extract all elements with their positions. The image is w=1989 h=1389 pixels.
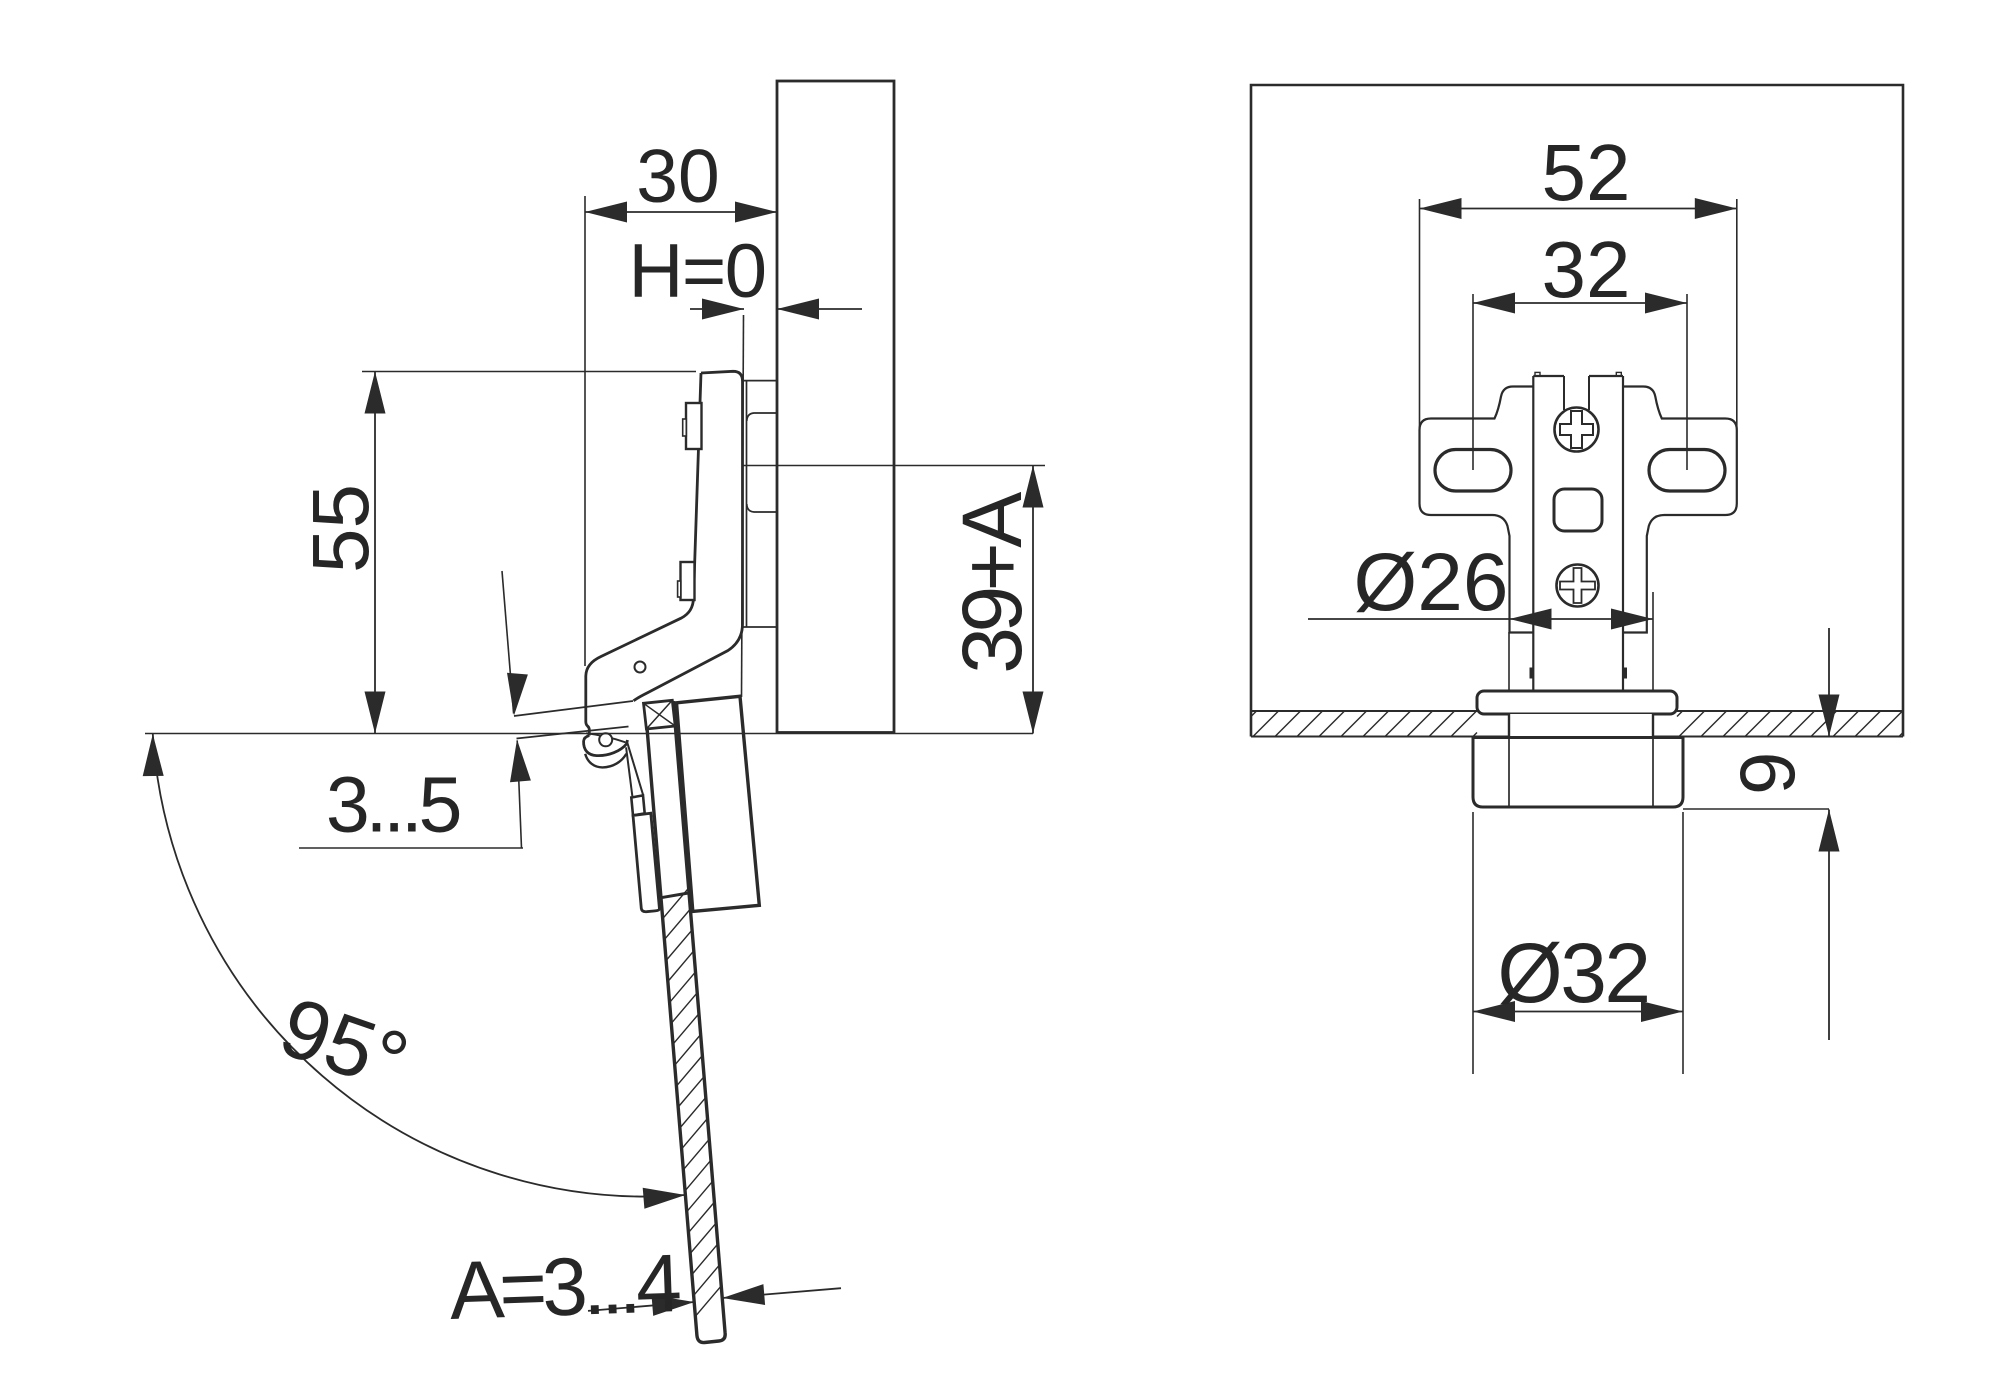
cabinet bottom reference line xyxy=(145,733,1033,735)
dimension 95 degree arc xyxy=(143,734,686,1209)
svg-text:52: 52 xyxy=(1542,128,1631,217)
cup clip xyxy=(631,795,659,911)
cup neck xyxy=(1509,714,1653,738)
dimension diameter 32 xyxy=(1473,812,1683,1074)
dimension 6 xyxy=(1683,628,1840,1040)
plate screw lower xyxy=(1557,565,1599,607)
cup body xyxy=(1473,738,1683,808)
dimension 52 xyxy=(1420,128,1737,430)
svg-text:6: 6 xyxy=(1724,751,1812,794)
hinge cup boss xyxy=(677,696,760,911)
dimension 32 xyxy=(1473,225,1687,470)
cup rim section (X box) xyxy=(644,700,676,729)
svg-text:H=0: H=0 xyxy=(628,229,765,314)
cup flange xyxy=(1477,691,1677,714)
cabinet panel face (right view) xyxy=(1251,85,1903,737)
hinge knuckle xyxy=(584,733,628,767)
door section hatching xyxy=(663,888,722,1316)
arm flap top edge xyxy=(514,701,633,716)
arm adjustment screw head (upper) xyxy=(683,403,702,449)
door panel section (strip) xyxy=(645,701,725,1342)
dimension 55 xyxy=(296,372,696,734)
lever links to cup clip xyxy=(626,743,643,796)
pivot pin xyxy=(599,733,612,746)
bottom panel section (hatched) xyxy=(1251,711,1903,737)
dimension 30 xyxy=(585,134,777,666)
plate oblong hole right xyxy=(1649,450,1725,492)
plate oblong hole left xyxy=(1435,450,1511,492)
plate square hole xyxy=(1554,489,1602,531)
arm flap bottom edge xyxy=(517,727,629,739)
bottom panel hatching xyxy=(1251,711,1903,737)
svg-text:32: 32 xyxy=(1542,225,1631,314)
plate latch ticks xyxy=(1530,668,1628,679)
plate screw upper xyxy=(1555,408,1599,452)
arm hole xyxy=(635,662,646,673)
dimension 39+A xyxy=(743,466,1046,734)
svg-text:30: 30 xyxy=(636,134,719,218)
svg-text:Ø32: Ø32 xyxy=(1497,926,1648,1020)
dimension H=0 xyxy=(628,229,862,697)
svg-text:3...5: 3...5 xyxy=(326,760,460,849)
dimension diameter 26 xyxy=(1308,537,1653,690)
mounting plate side profile xyxy=(743,381,777,627)
mounting plate face xyxy=(1420,372,1737,692)
arm fixing screw head (lower) xyxy=(678,562,695,600)
dimension A=3...4 xyxy=(448,1238,841,1337)
hinge cup bottom (inside door) xyxy=(661,893,689,898)
svg-text:39+A: 39+A xyxy=(945,492,1039,674)
dimension 3...5 xyxy=(299,571,531,849)
svg-text:A=3...4: A=3...4 xyxy=(448,1238,682,1337)
cabinet side panel (left view) xyxy=(777,81,894,733)
svg-text:55: 55 xyxy=(296,484,385,573)
hinge arm xyxy=(586,371,743,735)
svg-text:Ø26: Ø26 xyxy=(1354,537,1509,628)
